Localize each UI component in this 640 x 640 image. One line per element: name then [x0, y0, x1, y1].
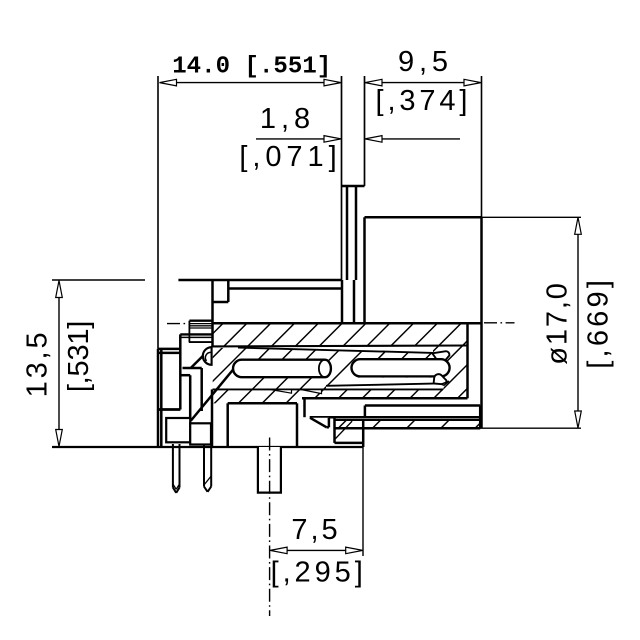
dimension 9.5 line: [382, 82, 465, 84]
wire plate left edge: [303, 398, 306, 417]
dimension dia17 label: [542, 283, 574, 365]
wire flange line lower: [158, 352, 180, 355]
dimension 1.8 leader right: [365, 136, 460, 143]
contact pin left capsule: [233, 360, 331, 378]
dimension 13.5 label: [21, 332, 53, 397]
wire plate mid edge: [365, 404, 480, 407]
pin solder middle: [204, 444, 211, 492]
svg-text:[,295]: [,295]: [271, 557, 363, 589]
wire boss mid below body top: [353, 280, 356, 323]
centerline left: [167, 323, 188, 325]
wire boss outer right column: [364, 76, 366, 186]
wire front inner wall: [160, 349, 163, 447]
centerline solder pin: [269, 438, 271, 617]
wire front face left: [157, 349, 160, 447]
pin solder left: [173, 444, 180, 493]
wire plate top edge: [302, 397, 468, 400]
svg-text:14.0 [.551]: 14.0 [.551]: [172, 54, 331, 81]
wire step horizontal y302: [213, 301, 229, 304]
wire center block top: [228, 402, 297, 405]
dimension 9.5 inch label: [376, 85, 468, 117]
dimension 14.0 arrow right: [324, 79, 341, 86]
dimension 13.5 inch label: [63, 321, 95, 393]
dimension 9.5 label: [398, 46, 448, 78]
wire strip top edge: [335, 419, 481, 421]
dimension 13.5 arrow up: [56, 281, 63, 298]
centerline right: [484, 322, 515, 324]
wire boss inner left column: [346, 186, 349, 280]
node lamella notch left: [271, 390, 292, 394]
dimension dia17 arrow up: [575, 217, 582, 234]
node corner block: [335, 417, 364, 447]
svg-text:[,071]: [,071]: [239, 141, 336, 173]
dimension 1.8 label: [260, 103, 310, 135]
wire latch step: [179, 334, 182, 409]
dimension 13.5 extension: [52, 279, 145, 281]
wire hatch top edge: [213, 322, 482, 325]
wire plate bottom edge: [310, 416, 481, 419]
wire step vertical x228: [227, 281, 230, 303]
contact upper fang: [432, 351, 449, 362]
svg-text:[,531]: [,531]: [63, 321, 95, 393]
dimension 7.5 label: [291, 514, 337, 546]
dimension 7.5 inch label: [271, 557, 363, 589]
dimension 7.5 line: [287, 549, 346, 551]
wire cylinder right edge: [480, 217, 483, 428]
node chamfer white pocket: [218, 369, 242, 389]
wire front-face extension line: [157, 76, 159, 349]
node lamella notch right: [302, 390, 322, 394]
wire rear body inner top edge: [228, 287, 341, 290]
hatch main insulator section: [106, 300, 603, 440]
dimension 7.5 extension right: [362, 428, 364, 556]
dimension 13.5 arrow down: [56, 430, 63, 447]
wire hatch right edge: [466, 323, 469, 398]
contact lower fang: [434, 374, 449, 385]
wire boss inner right column: [355, 186, 358, 280]
dimension dia17 inch label: [583, 280, 615, 369]
wire center block left: [226, 403, 229, 447]
wire cylinder front face: [363, 217, 366, 323]
contact lower lamella: [326, 378, 446, 390]
wire bottom edge main: [52, 446, 363, 448]
node retaining flag: [310, 418, 329, 428]
wire boss outer left column: [341, 76, 343, 280]
wire step vertical x212: [211, 280, 214, 347]
svg-text:[,669]: [,669]: [583, 280, 615, 369]
dimension dia17 arrow down: [575, 411, 582, 428]
wire boss left below body top: [341, 280, 344, 323]
contact pin right capsule: [352, 359, 450, 376]
svg-text:[,374]: [,374]: [376, 85, 468, 117]
wire dome step: [183, 368, 202, 411]
wire insulator chamfer: [191, 369, 234, 421]
wire cylinder right extension above: [481, 76, 483, 217]
wire cylinder top edge: [365, 216, 482, 219]
wire plate right edge: [479, 406, 482, 429]
hatch lower strip section: [307, 380, 524, 460]
wire rear body top edge: [178, 279, 341, 282]
svg-text:ø17,0: ø17,0: [542, 283, 574, 365]
wire center block right: [296, 403, 299, 447]
dimension 14.0 label: [172, 54, 331, 81]
wire plate mid vertical: [364, 406, 367, 418]
node pin base box right: [190, 423, 211, 444]
contact dome: [203, 347, 212, 365]
dimension 1.8 leader left: [256, 136, 341, 143]
dimension dia17 bottom extension: [363, 427, 582, 429]
node pin base box left: [166, 418, 190, 442]
dimension 13.5 line: [58, 297, 60, 430]
wire contact cavity floor line: [213, 388, 444, 390]
wire flange bottom thick: [158, 408, 180, 411]
wire boss cap: [342, 185, 365, 188]
wire vertical x212 lower: [211, 389, 214, 447]
dimension 7.5 arrow right: [346, 547, 363, 554]
svg-text:7,5: 7,5: [291, 514, 337, 546]
dimension 9.5 arrow right: [464, 79, 481, 86]
dimension dia17 line: [577, 234, 579, 412]
svg-text:9,5: 9,5: [398, 46, 448, 78]
dimension 7.5 arrow left: [270, 547, 287, 554]
dimension 1.8 inch label: [239, 141, 336, 173]
wire strip bottom edge: [335, 427, 481, 430]
dimension 9.5 arrow left: [365, 79, 382, 86]
dimension 14.0 line: [176, 82, 324, 84]
node latch block stripes: [180, 321, 212, 342]
wire step y375: [180, 374, 190, 377]
svg-text:13,5: 13,5: [21, 332, 53, 397]
pin solder center: [258, 447, 281, 493]
svg-text:1,8: 1,8: [260, 103, 310, 135]
wire vertical x190: [189, 375, 192, 442]
dimension 14.0 arrow left: [160, 79, 177, 86]
wire cylinder top extension: [482, 216, 582, 218]
contact upper lamella: [213, 345, 468, 353]
wire flange line upper: [158, 348, 180, 351]
wire insulator chamfer upper: [191, 346, 213, 368]
